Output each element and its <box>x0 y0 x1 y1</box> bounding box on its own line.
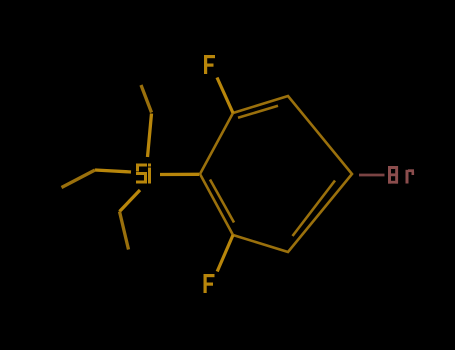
benzene ring C1-C2-C3-C4-C5-C6 <box>200 96 352 252</box>
bond Si-CH2 lower-left <box>120 190 141 212</box>
bond Si-CH2 left <box>95 170 131 172</box>
double bond C6=C1 inner line <box>210 180 234 223</box>
bond CH2-CH3 left ethyl <box>62 170 96 188</box>
double bond C4=C5 inner line <box>293 181 336 237</box>
bond C6-F bottom <box>217 235 233 272</box>
double bond C2=C3 inner line <box>238 106 278 118</box>
bond C4-Br <box>359 174 385 177</box>
silicon Si label <box>136 164 151 184</box>
bond CH2-CH3 lower ethyl <box>120 212 129 250</box>
fluorine F top label <box>204 55 215 74</box>
bond CH2-CH3 top ethyl <box>141 85 152 113</box>
bond C1-Si <box>160 173 199 176</box>
bromine Br label <box>388 166 414 184</box>
bond C2-F top <box>217 78 233 114</box>
fluorine F bottom label <box>204 274 215 293</box>
bond Si-CH2 up <box>148 114 152 158</box>
